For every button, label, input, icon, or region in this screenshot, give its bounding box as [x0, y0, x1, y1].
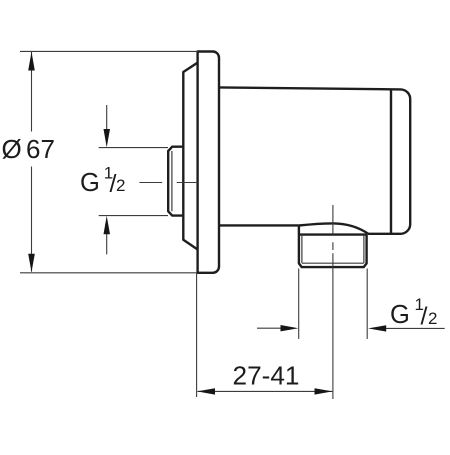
inlet top extension line: [99, 147, 168, 149]
outlet dimension arrow tails: [257, 327, 445, 329]
arrowhead 27-41 right: [315, 388, 333, 394]
svg-text:2: 2: [116, 176, 125, 195]
svg-text:27-41: 27-41: [233, 361, 300, 391]
outlet thread relief lines: [302, 235, 364, 263]
svg-text:2: 2: [428, 309, 437, 328]
arrowhead inlet down: [104, 129, 111, 147]
shoulder curve over outlet: [299, 223, 368, 233]
svg-text:67: 67: [26, 134, 55, 164]
G1/2 left leader line: [139, 182, 197, 184]
outlet centerline: [332, 205, 334, 399]
inlet spigot G1/2 left: [168, 147, 183, 216]
arrowhead 27-41 left: [197, 388, 215, 394]
inlet dimension arrow tails: [106, 105, 108, 254]
body outline: [219, 87, 410, 233]
outlet thread-top line: [299, 233, 367, 235]
wall-face extension line: [196, 274, 198, 398]
top extension line O67: [20, 50, 198, 52]
label G1/2 bottom: [390, 295, 437, 331]
27-41 dimension line: [198, 390, 333, 392]
flange front disc with chamfers: [183, 63, 197, 250]
label G1/2 left: [80, 164, 125, 199]
body bottom-left edge: [219, 224, 299, 226]
arrowhead O67 up: [28, 52, 35, 71]
bottom extension line O67: [20, 272, 197, 274]
outlet spigot outline: [299, 225, 367, 267]
arrowhead outlet right: [281, 325, 299, 331]
outlet right extension line: [366, 269, 368, 340]
inlet bottom extension line: [99, 215, 168, 217]
inlet thread relief line: [171, 151, 173, 211]
arrowhead inlet up: [104, 216, 111, 235]
svg-text:G: G: [80, 169, 100, 197]
body end-cap line: [390, 89, 392, 233]
arrowhead O67 down: [28, 254, 35, 272]
svg-text:Ø: Ø: [2, 134, 22, 164]
outlet left extension line: [298, 269, 300, 340]
O67 dimension line: [31, 52, 33, 272]
svg-text:G: G: [390, 301, 410, 329]
outlet thread-end line: [302, 262, 364, 264]
flange wall plate: [198, 52, 219, 273]
svg-text:/: /: [421, 303, 428, 331]
arrowhead outlet left: [368, 325, 386, 331]
